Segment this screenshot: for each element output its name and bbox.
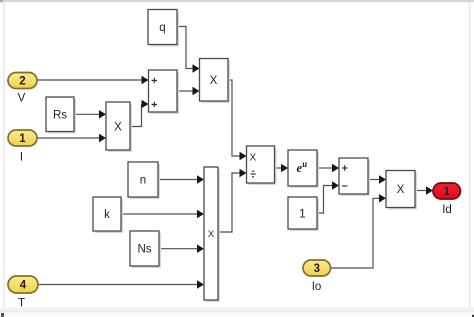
svg-text:k: k	[104, 209, 110, 221]
svg-text:X: X	[210, 75, 218, 87]
svg-text:T: T	[18, 298, 25, 310]
svg-text:X: X	[249, 152, 256, 163]
svg-text:1: 1	[19, 133, 26, 145]
svg-text:Ns: Ns	[137, 244, 151, 256]
svg-text:1: 1	[444, 186, 451, 198]
svg-text:V: V	[18, 93, 26, 105]
svg-text:q: q	[159, 22, 165, 34]
svg-text:Id: Id	[442, 204, 452, 216]
svg-text:4: 4	[20, 280, 27, 292]
svg-text:Rs: Rs	[53, 110, 67, 122]
svg-text:1: 1	[299, 209, 305, 221]
svg-text:2: 2	[19, 76, 25, 88]
svg-text:3: 3	[314, 263, 320, 275]
svg-text:Io: Io	[312, 281, 322, 293]
svg-text:X: X	[114, 122, 122, 134]
svg-text:n: n	[140, 175, 146, 187]
svg-text:I: I	[20, 152, 23, 164]
svg-text:X: X	[397, 184, 405, 196]
svg-text:X: X	[208, 229, 215, 240]
